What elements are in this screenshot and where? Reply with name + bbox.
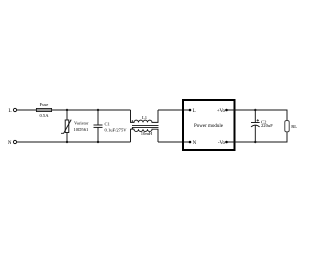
common-mode choke L1 (10mH) top winding: [131, 110, 159, 122]
wire choke to module pin L: [158, 109, 190, 111]
wire choke to module pin N: [158, 141, 190, 143]
node: bottom rail / C1 junction: [97, 141, 99, 143]
pin -Vo of power module: [218, 141, 228, 146]
wire +Vo output rail to RL: [227, 110, 288, 121]
svg-text:C1: C1: [105, 122, 111, 127]
wire bottom rail: N terminal to choke L1: [17, 141, 131, 143]
terminal N: [8, 140, 17, 146]
svg-text:0.5A: 0.5A: [39, 113, 49, 118]
fuse F1 (Fuse 0.5A): [36, 102, 51, 118]
terminal L: [8, 108, 16, 114]
svg-text:N: N: [8, 141, 12, 146]
svg-text:N: N: [193, 141, 197, 146]
node: top rail / varistor junction: [66, 109, 68, 111]
varistor RV1 (Varistor 10D561): [61, 110, 89, 142]
svg-text:Varistor: Varistor: [74, 120, 89, 125]
capacitor C1 (0.1uF/275V): [94, 110, 128, 142]
pin N of power module: [189, 141, 197, 146]
svg-text:220uF: 220uF: [261, 123, 273, 128]
svg-text:10mH: 10mH: [141, 131, 153, 136]
wire top rail: fuse to choke L1: [52, 109, 131, 111]
svg-text:0.1uF/275V: 0.1uF/275V: [105, 127, 128, 132]
node: bottom rail / varistor junction: [66, 141, 68, 143]
svg-text:Power module: Power module: [194, 124, 224, 129]
svg-text:L1: L1: [142, 115, 148, 120]
resistor RL: [285, 121, 297, 132]
svg-text:Fuse: Fuse: [40, 102, 49, 107]
svg-text:10D561: 10D561: [74, 127, 90, 132]
svg-text:+Vo: +Vo: [217, 109, 226, 114]
svg-text:L: L: [193, 109, 196, 114]
node: top rail / C1 junction: [97, 109, 99, 111]
wire L terminal to fuse: [17, 109, 37, 111]
node: output rail / C2 bottom junction: [254, 141, 256, 143]
node: output rail / C2 top junction: [254, 109, 256, 111]
choke L1 core: [132, 125, 159, 127]
choke L1 bottom winding: [131, 128, 159, 143]
power module U1: [183, 100, 235, 150]
pin +Vo of power module: [217, 109, 228, 114]
capacitor C2 (220uF electrolytic): [251, 110, 273, 142]
svg-text:L: L: [8, 109, 11, 114]
pin L of power module: [189, 109, 196, 114]
wire -Vo output rail to RL: [227, 132, 288, 142]
svg-text:RL: RL: [291, 124, 297, 129]
svg-text:-Vo: -Vo: [218, 141, 226, 146]
